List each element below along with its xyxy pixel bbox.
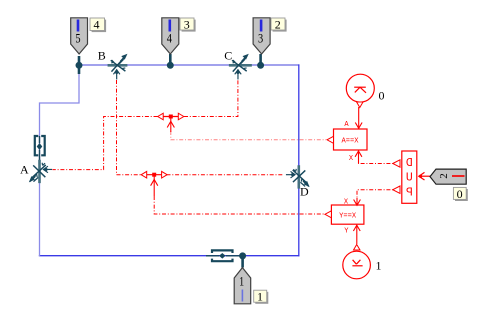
svg-text:A: A — [20, 163, 29, 177]
svg-text:1: 1 — [257, 290, 263, 304]
svg-text:0: 0 — [457, 187, 463, 201]
svg-text:1: 1 — [239, 275, 244, 289]
svg-text:4: 4 — [94, 18, 100, 32]
svg-text:4: 4 — [167, 32, 173, 46]
svg-text:U: U — [406, 172, 413, 185]
svg-text:5: 5 — [75, 32, 80, 46]
svg-text:C: C — [224, 48, 232, 62]
svg-text:A==X: A==X — [342, 137, 359, 145]
svg-text:1: 1 — [376, 259, 382, 273]
svg-text:D: D — [406, 157, 413, 170]
svg-text:3: 3 — [258, 32, 263, 46]
svg-text:0: 0 — [379, 88, 385, 102]
svg-text:Y==X: Y==X — [339, 212, 356, 220]
svg-text:2: 2 — [275, 17, 281, 31]
svg-text:D: D — [300, 185, 309, 199]
svg-text:2: 2 — [438, 173, 450, 179]
svg-text:P: P — [406, 187, 413, 200]
svg-text:B: B — [98, 48, 106, 62]
svg-text:3: 3 — [184, 17, 190, 31]
